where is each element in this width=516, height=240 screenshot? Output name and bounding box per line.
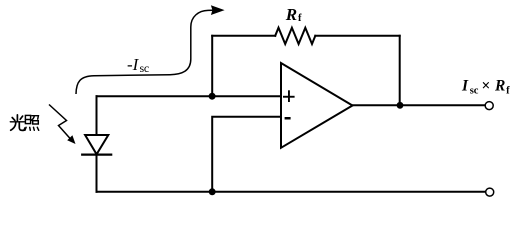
op-amp plus mark bbox=[283, 90, 295, 102]
label 光照 (drawn glyphs) bbox=[10, 115, 38, 130]
lightning arrowhead bbox=[67, 135, 75, 144]
op-amp U1 triangle bbox=[281, 63, 353, 148]
wire: photodiode anode to op-amp noninverting input (+) bbox=[97, 95, 281, 97]
wire: feedback top left segment bbox=[212, 35, 275, 37]
current direction arrow -Isc (curved) bbox=[76, 10, 213, 94]
svg-text:sc: sc bbox=[140, 61, 149, 75]
wire: feedback top right segment bbox=[315, 35, 399, 37]
svg-text:-I: -I bbox=[127, 55, 140, 74]
photodiode cathode bar bbox=[81, 154, 112, 156]
resistor Rf zigzag bbox=[275, 28, 315, 44]
photodiode VD triangle bbox=[85, 135, 108, 154]
wire: feedback right vertical to output node bbox=[399, 36, 401, 106]
wire: bottom rail bbox=[97, 191, 486, 193]
op-amp minus mark bbox=[285, 117, 291, 120]
wire: feedback left vertical bbox=[211, 36, 213, 96]
glyph 照 bbox=[25, 115, 39, 130]
junction: feedback / + input bbox=[209, 93, 216, 100]
svg-text:f: f bbox=[506, 86, 510, 97]
svg-text:R: R bbox=[494, 78, 505, 95]
svg-text:R: R bbox=[285, 5, 297, 24]
output terminal circle (top) bbox=[485, 102, 493, 110]
svg-text:I: I bbox=[461, 78, 469, 95]
junction: - branch / bottom rail bbox=[209, 188, 216, 195]
lightning arrow (light onto photodiode) bbox=[49, 105, 71, 140]
output terminal circle (bottom) bbox=[486, 188, 494, 196]
wire: photodiode vertical branch bbox=[96, 96, 98, 192]
glyph 光 bbox=[10, 115, 24, 130]
arrowhead of -Isc arrow bbox=[211, 5, 225, 15]
junction: output node bbox=[397, 102, 404, 109]
svg-text:×: × bbox=[482, 78, 491, 95]
svg-text:sc: sc bbox=[470, 85, 479, 96]
wire: op-amp output to terminal bbox=[353, 104, 485, 106]
wire: inverting input (-) to bottom rail bbox=[212, 117, 280, 192]
svg-text:f: f bbox=[298, 13, 302, 24]
